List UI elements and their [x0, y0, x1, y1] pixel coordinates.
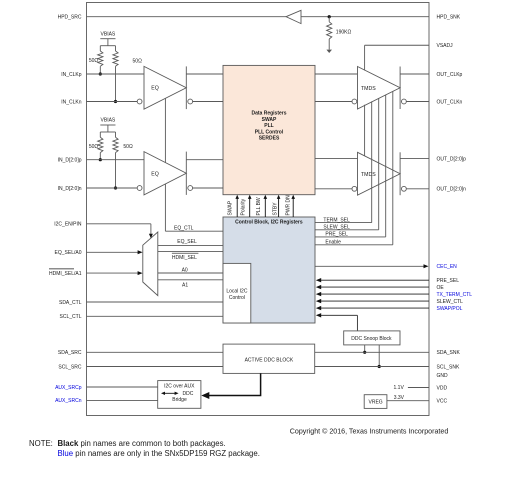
svg-text:SERDES: SERDES: [259, 136, 280, 142]
svg-text:PRE_SEL: PRE_SEL: [325, 232, 348, 238]
svg-text:VDD: VDD: [437, 385, 448, 391]
svg-text:VCC: VCC: [437, 399, 448, 405]
svg-text:HDMI_SEL: HDMI_SEL: [172, 255, 197, 261]
svg-text:Enable: Enable: [325, 240, 341, 246]
svg-text:PRE_SEL: PRE_SEL: [437, 278, 460, 284]
svg-text:VBIAS: VBIAS: [101, 31, 116, 37]
svg-text:HPD_SRC: HPD_SRC: [58, 15, 82, 21]
svg-text:SCL_CTL: SCL_CTL: [60, 314, 82, 320]
svg-text:A1: A1: [182, 283, 188, 289]
svg-text:A0: A0: [182, 268, 188, 274]
svg-text:50Ω: 50Ω: [123, 144, 133, 150]
svg-text:IN_CLKn: IN_CLKn: [61, 99, 82, 105]
svg-text:PLL: PLL: [264, 123, 273, 129]
svg-text:SWAP: SWAP: [228, 200, 234, 215]
svg-text:AUX_SRCp: AUX_SRCp: [55, 385, 82, 391]
svg-text:TMDS: TMDS: [361, 172, 376, 178]
svg-text:SCL_SRC: SCL_SRC: [58, 364, 81, 370]
svg-text:TERM_SEL: TERM_SEL: [323, 217, 350, 223]
svg-text:GND: GND: [437, 373, 449, 379]
svg-text:SCL_SNK: SCL_SNK: [437, 364, 460, 370]
svg-text:PWR DN: PWR DN: [285, 195, 291, 216]
svg-text:EQ_SEL: EQ_SEL: [177, 239, 197, 245]
svg-text:190KΩ: 190KΩ: [336, 30, 352, 36]
svg-text:Copyright © 2016, Texas Instru: Copyright © 2016, Texas Instruments Inco…: [290, 428, 449, 436]
svg-text:PLL Control: PLL Control: [255, 129, 284, 135]
svg-text:HDMI_SEL/A1: HDMI_SEL/A1: [49, 271, 82, 277]
svg-text:EQ_SEL/A0: EQ_SEL/A0: [55, 250, 82, 256]
svg-text:Local I2C: Local I2C: [226, 289, 248, 295]
svg-text:TX_TERM_CTL: TX_TERM_CTL: [437, 292, 473, 298]
svg-text:Black pin names are common to: Black pin names are common to both packa…: [58, 439, 226, 448]
svg-text:EQ_CTL: EQ_CTL: [174, 226, 194, 232]
svg-text:DDC Snoop Block: DDC Snoop Block: [351, 336, 392, 342]
svg-text:NOTE:: NOTE:: [29, 439, 53, 448]
svg-text:AUX_SRCn: AUX_SRCn: [55, 398, 82, 404]
svg-text:Bridge: Bridge: [172, 397, 187, 403]
svg-text:VSADJ: VSADJ: [437, 43, 454, 49]
svg-text:OUT_D[2:0]p: OUT_D[2:0]p: [437, 156, 467, 162]
svg-text:EQ: EQ: [151, 86, 159, 92]
svg-text:50Ω: 50Ω: [89, 144, 99, 150]
svg-text:VBIAS: VBIAS: [101, 118, 116, 124]
svg-text:OUT_CLKp: OUT_CLKp: [437, 72, 463, 78]
svg-text:STBY: STBY: [272, 202, 278, 216]
svg-text:3.3V: 3.3V: [394, 395, 405, 401]
svg-text:OUT_D[2:0]n: OUT_D[2:0]n: [437, 187, 467, 193]
svg-text:I2C over AUX: I2C over AUX: [164, 383, 195, 389]
svg-text:ACTIVE DDC BLOCK: ACTIVE DDC BLOCK: [245, 358, 294, 364]
svg-text:SWAP/POL: SWAP/POL: [437, 306, 463, 312]
svg-text:SDA_SRC: SDA_SRC: [58, 350, 82, 356]
svg-text:OE: OE: [437, 285, 445, 291]
svg-text:EQ: EQ: [151, 172, 159, 178]
svg-text:Data Registers: Data Registers: [251, 111, 286, 117]
svg-text:IN_D[2:0]p: IN_D[2:0]p: [58, 158, 82, 164]
svg-text:HPD_SNK: HPD_SNK: [437, 15, 461, 21]
svg-text:SLEW_SEL: SLEW_SEL: [323, 225, 350, 231]
svg-text:CEC_EN: CEC_EN: [437, 264, 458, 270]
svg-text:SLEW_CTL: SLEW_CTL: [437, 299, 464, 305]
svg-text:PLL BW: PLL BW: [256, 197, 262, 215]
svg-text:50Ω: 50Ω: [133, 58, 143, 64]
svg-text:50Ω: 50Ω: [89, 58, 99, 64]
svg-text:Polarity: Polarity: [240, 198, 246, 215]
svg-text:IN_CLKp: IN_CLKp: [61, 72, 82, 78]
svg-text:I2C_EN/PIN: I2C_EN/PIN: [54, 222, 82, 228]
svg-text:VREG: VREG: [369, 400, 383, 406]
svg-text:TMDS: TMDS: [361, 86, 376, 92]
svg-text:SDA_CTL: SDA_CTL: [59, 300, 82, 306]
svg-text:Control Block, I2C Registers: Control Block, I2C Registers: [235, 219, 303, 225]
svg-text:1.1V: 1.1V: [394, 385, 405, 391]
svg-text:Blue pin names are only in the: Blue pin names are only in the SNx5DP159…: [58, 449, 260, 458]
svg-text:Control: Control: [229, 295, 245, 301]
svg-text:OUT_CLKn: OUT_CLKn: [437, 99, 463, 105]
svg-text:SWAP: SWAP: [262, 117, 277, 123]
svg-text:IN_D[2:0]n: IN_D[2:0]n: [58, 186, 82, 192]
svg-text:SDA_SNK: SDA_SNK: [437, 350, 461, 356]
